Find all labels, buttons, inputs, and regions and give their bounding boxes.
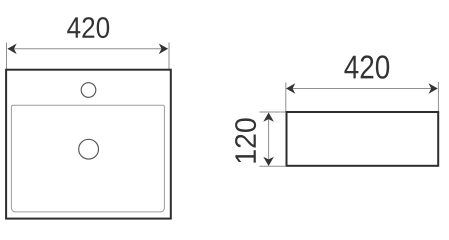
dimension extension line left	[6, 43, 8, 70]
faucet hole circle	[81, 83, 96, 98]
side view body rectangle	[287, 112, 439, 166]
arrowhead right (side view 420)	[429, 83, 438, 94]
basin inner bowl rectangle	[11, 105, 164, 212]
arrowhead right	[159, 44, 168, 55]
dimension line 120 vertical	[268, 114, 270, 166]
dimension text 420 (side view width)	[344, 55, 389, 78]
extension line bottom (side view height)	[259, 165, 286, 167]
dimension extension line right (side view)	[437, 82, 439, 112]
dimension line 420 top	[8, 48, 168, 50]
dimension extension line left (side view)	[285, 83, 287, 113]
dimension text 420 (top view width)	[67, 17, 109, 38]
dimension extension line right	[168, 43, 170, 70]
basin outer rim rectangle	[6, 70, 171, 219]
arrowhead left	[7, 44, 16, 55]
drain hole circle	[79, 139, 99, 159]
extension line top (side view height)	[259, 111, 285, 113]
arrowhead up (120)	[263, 113, 274, 122]
dimension line 420 (side view)	[287, 88, 437, 90]
dimension text 120 (side view height, rotated)	[235, 118, 256, 162]
arrowhead left (side view 420)	[286, 83, 295, 94]
arrowhead down (120)	[263, 157, 274, 166]
